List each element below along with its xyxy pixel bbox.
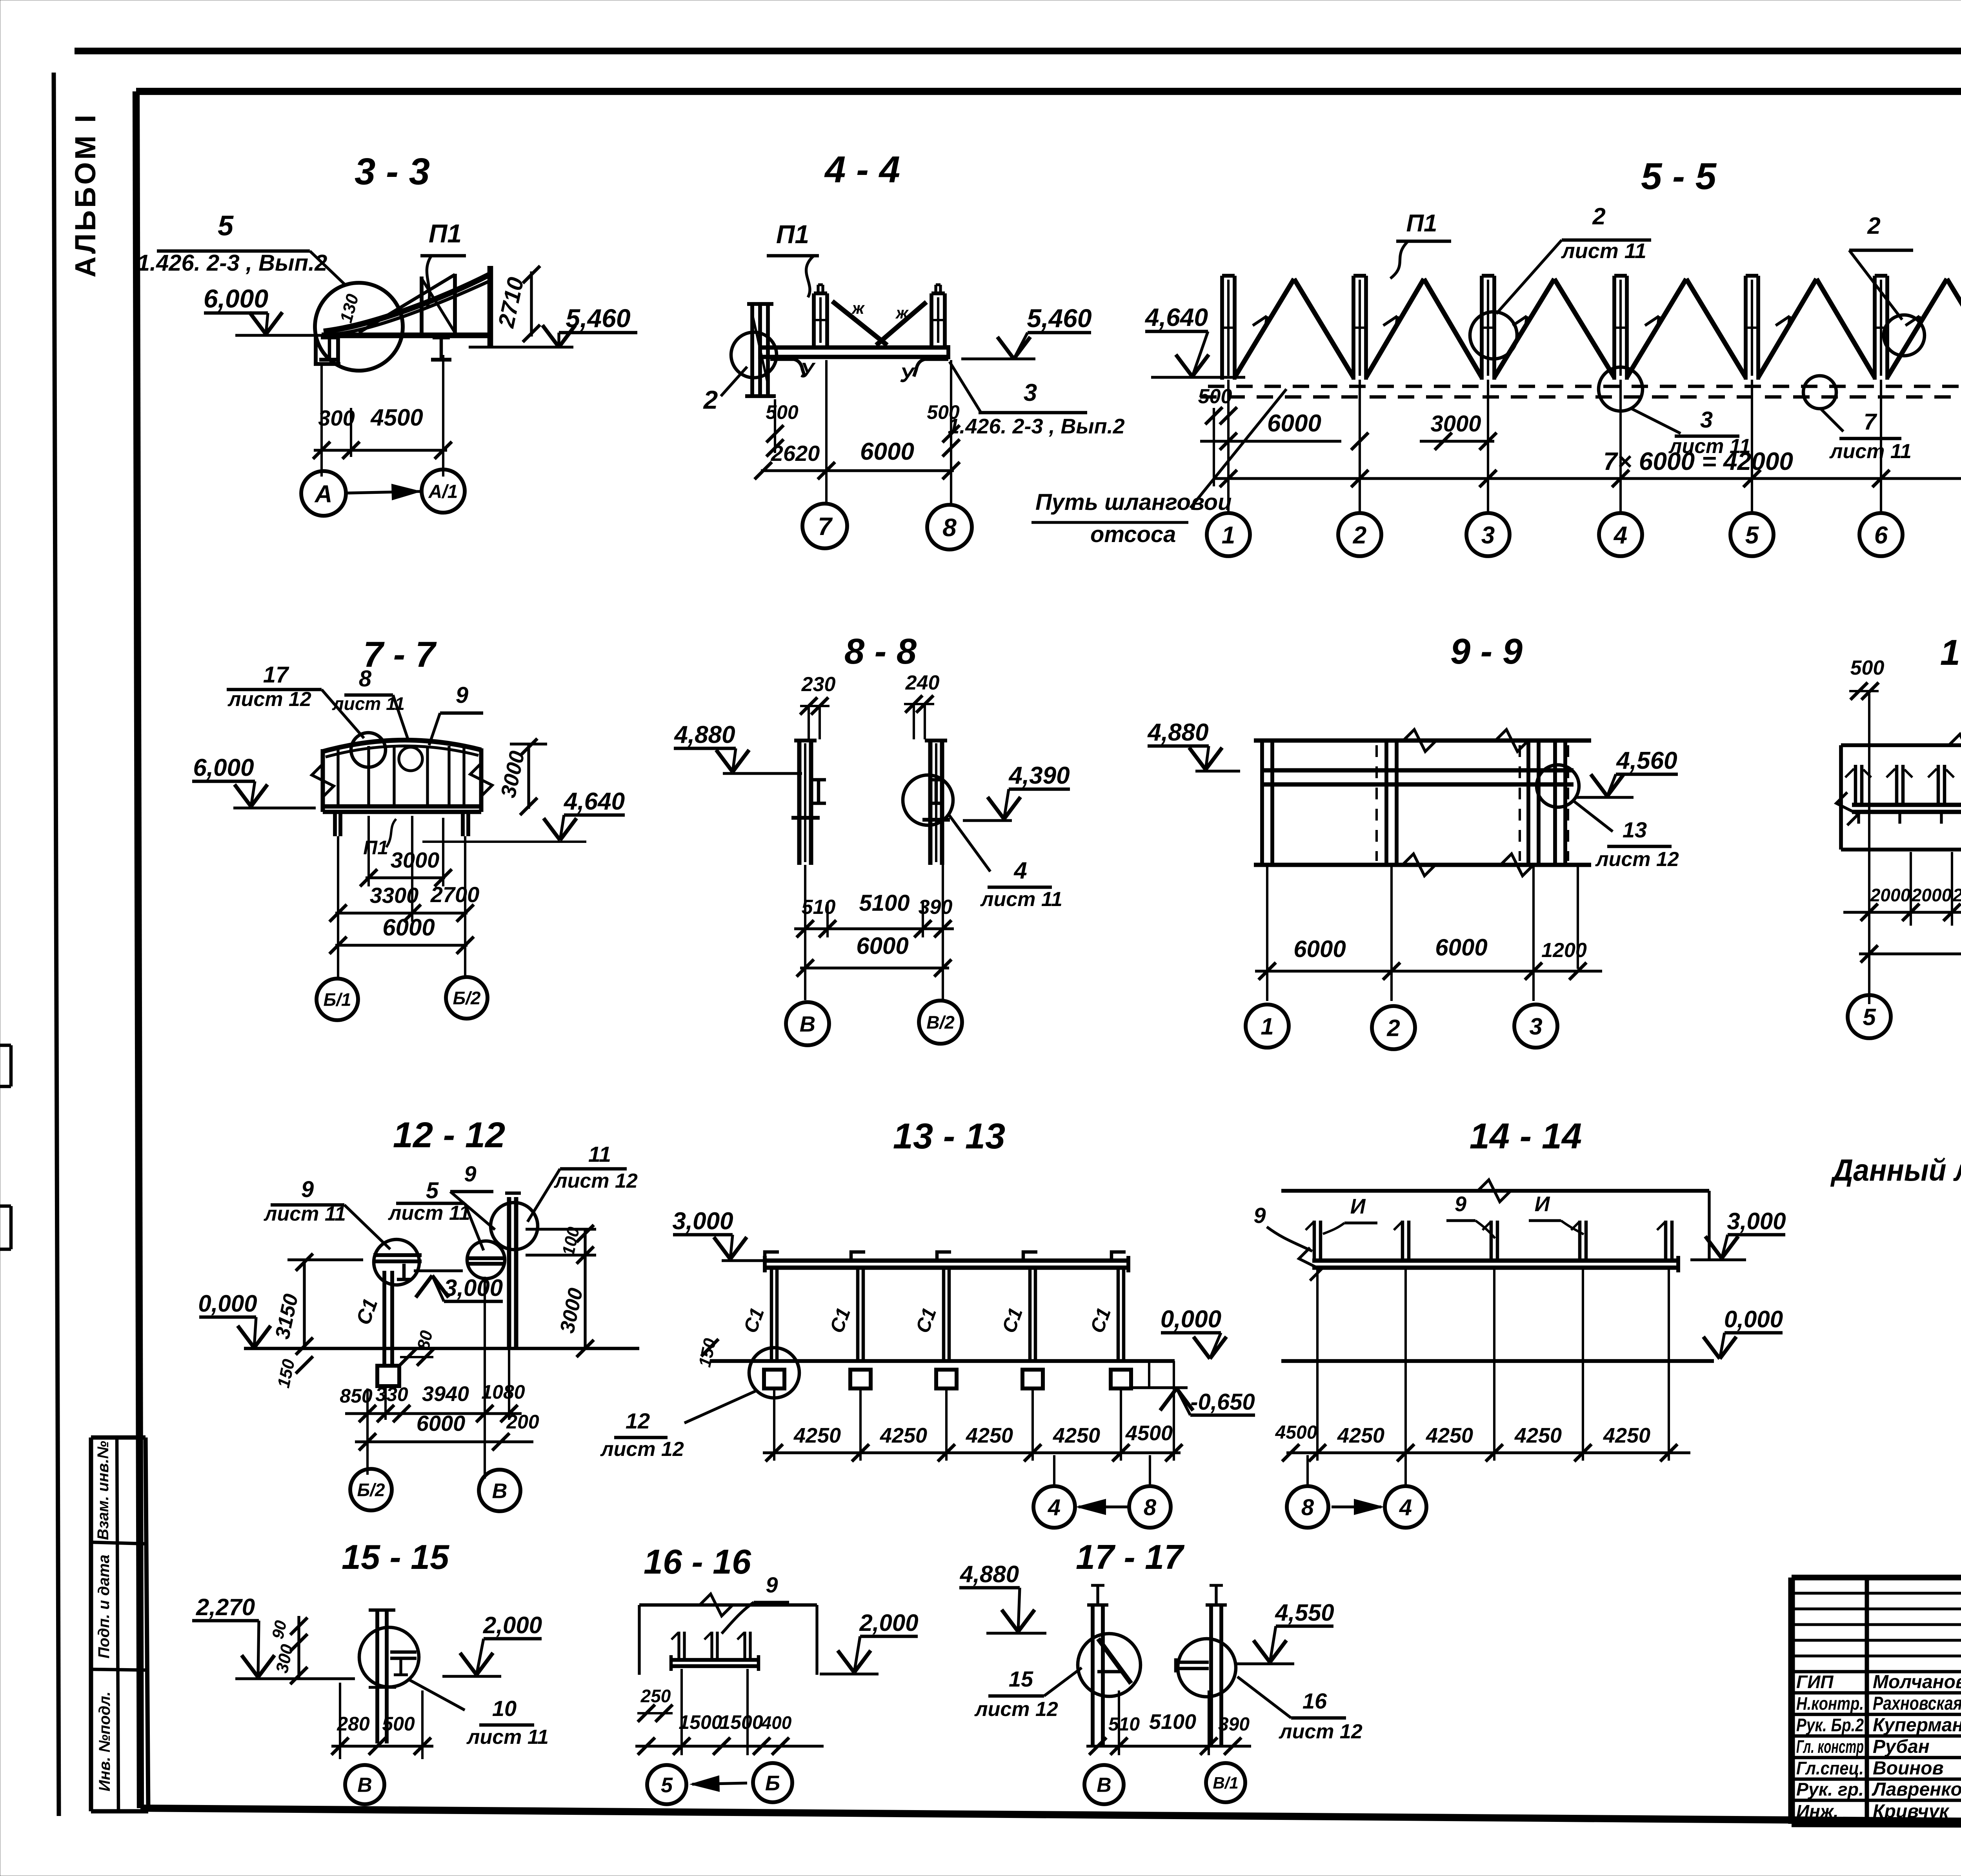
svg-text:3,000: 3,000 — [672, 1208, 733, 1235]
svg-text:Рук. Бр.2: Рук. Бр.2 — [1796, 1715, 1864, 1735]
svg-text:2,000: 2,000 — [859, 1610, 918, 1636]
svg-text:9: 9 — [301, 1177, 314, 1202]
svg-text:4,640: 4,640 — [563, 788, 625, 815]
svg-text:230: 230 — [801, 673, 836, 696]
svg-text:-0,650: -0,650 — [1190, 1389, 1255, 1415]
svg-text:500: 500 — [382, 1713, 415, 1735]
svg-text:Б/2: Б/2 — [453, 988, 481, 1008]
svg-text:2000: 2000 — [1952, 885, 1961, 905]
svg-text:4250: 4250 — [1514, 1424, 1562, 1447]
svg-text:2,270: 2,270 — [196, 1594, 255, 1620]
svg-text:2: 2 — [1867, 213, 1880, 239]
svg-text:5: 5 — [1745, 522, 1759, 549]
svg-text:4,880: 4,880 — [673, 721, 735, 748]
svg-text:Куперман: Куперман — [1873, 1715, 1961, 1736]
svg-text:7: 7 — [818, 512, 833, 540]
svg-text:П1: П1 — [1406, 210, 1437, 237]
svg-text:17: 17 — [263, 662, 289, 688]
svg-text:3000: 3000 — [391, 848, 440, 872]
svg-text:Инв. №подл.: Инв. №подл. — [96, 1692, 113, 1792]
svg-text:12: 12 — [626, 1408, 650, 1433]
svg-text:14 - 14: 14 - 14 — [1470, 1116, 1582, 1156]
svg-text:4250: 4250 — [1603, 1424, 1650, 1447]
svg-text:2: 2 — [1353, 522, 1366, 549]
svg-text:ж: ж — [851, 299, 865, 317]
svg-text:17 - 17: 17 - 17 — [1076, 1538, 1185, 1576]
svg-text:В: В — [492, 1479, 508, 1503]
svg-text:1: 1 — [1261, 1014, 1273, 1040]
svg-text:Б: Б — [765, 1771, 780, 1795]
svg-text:1500: 1500 — [719, 1711, 763, 1733]
svg-text:4250: 4250 — [1426, 1424, 1473, 1447]
svg-text:5: 5 — [661, 1773, 673, 1797]
svg-text:8 - 8: 8 - 8 — [844, 631, 917, 671]
svg-text:3000: 3000 — [1430, 411, 1481, 437]
svg-text:8: 8 — [1144, 1495, 1157, 1520]
svg-text:7 - 7: 7 - 7 — [363, 635, 437, 675]
svg-text:3940: 3940 — [422, 1382, 469, 1406]
svg-text:Воинов: Воинов — [1873, 1758, 1944, 1779]
svg-text:9: 9 — [1253, 1203, 1266, 1228]
svg-text:6,000: 6,000 — [193, 754, 254, 781]
svg-text:Б/2: Б/2 — [357, 1480, 385, 1500]
svg-text:5100: 5100 — [1149, 1710, 1196, 1734]
svg-text:4,880: 4,880 — [1147, 719, 1208, 746]
svg-text:9: 9 — [464, 1161, 476, 1186]
svg-text:4500: 4500 — [370, 404, 423, 431]
svg-text:А: А — [314, 480, 333, 508]
svg-text:1200: 1200 — [1541, 939, 1587, 962]
svg-text:Рубан: Рубан — [1873, 1736, 1930, 1757]
svg-text:3,000: 3,000 — [1727, 1208, 1786, 1234]
svg-text:В: В — [357, 1774, 372, 1797]
svg-text:12 - 12: 12 - 12 — [393, 1115, 505, 1155]
svg-text:И: И — [1535, 1192, 1550, 1216]
svg-text:3: 3 — [1024, 379, 1037, 406]
svg-text:2: 2 — [703, 385, 718, 414]
svg-text:1.426. 2-3 , Вып.2: 1.426. 2-3 , Вып.2 — [137, 250, 327, 276]
svg-text:3 - 3: 3 - 3 — [355, 151, 430, 193]
svg-text:В/2: В/2 — [926, 1012, 955, 1033]
svg-text:15: 15 — [1009, 1667, 1033, 1691]
svg-text:7: 7 — [1864, 409, 1877, 435]
svg-text:8: 8 — [942, 513, 957, 542]
svg-text:П1: П1 — [363, 837, 388, 859]
svg-text:13 - 13: 13 - 13 — [893, 1116, 1005, 1156]
svg-text:лист 12: лист 12 — [553, 1170, 638, 1192]
svg-text:Лавренко: Лавренко — [1872, 1779, 1961, 1800]
svg-text:2000: 2000 — [1870, 885, 1911, 905]
svg-text:отсоса: отсоса — [1090, 522, 1176, 547]
svg-text:4,390: 4,390 — [1008, 762, 1070, 789]
svg-text:Рахновская: Рахновская — [1873, 1693, 1961, 1714]
svg-text:6: 6 — [1874, 522, 1888, 549]
svg-text:5: 5 — [426, 1178, 439, 1203]
svg-text:5: 5 — [218, 210, 234, 242]
svg-text:Инж.: Инж. — [1796, 1801, 1839, 1821]
svg-text:6000: 6000 — [1435, 934, 1487, 961]
svg-text:9: 9 — [766, 1572, 778, 1597]
svg-text:3: 3 — [1700, 407, 1713, 433]
svg-text:Подп. и дата: Подп. и дата — [95, 1555, 113, 1659]
svg-text:Б/1: Б/1 — [324, 990, 351, 1010]
svg-text:1.426. 2-3 , Вып.2: 1.426. 2-3 , Вып.2 — [948, 415, 1124, 438]
svg-text:6000: 6000 — [1293, 936, 1346, 962]
svg-text:Кривчук: Кривчук — [1873, 1801, 1950, 1822]
svg-text:4 - 4: 4 - 4 — [824, 149, 900, 191]
svg-text:5: 5 — [1863, 1004, 1876, 1030]
svg-text:2620: 2620 — [771, 441, 820, 466]
svg-text:1: 1 — [1222, 522, 1235, 549]
svg-text:6,000: 6,000 — [204, 284, 268, 313]
svg-text:4: 4 — [1048, 1495, 1061, 1520]
svg-text:В: В — [800, 1012, 815, 1036]
svg-text:П1: П1 — [776, 220, 809, 249]
svg-text:8: 8 — [359, 666, 372, 691]
svg-text:АЛЬБОМ I: АЛЬБОМ I — [69, 113, 102, 278]
svg-text:390: 390 — [1218, 1714, 1250, 1735]
svg-text:10: 10 — [492, 1696, 517, 1721]
svg-text:850: 850 — [340, 1385, 373, 1407]
svg-text:4: 4 — [1399, 1495, 1412, 1520]
svg-text:10 - 10: 10 - 10 — [1940, 633, 1961, 673]
svg-text:лист 11: лист 11 — [387, 1202, 470, 1225]
svg-text:13: 13 — [1623, 817, 1647, 842]
svg-text:400: 400 — [761, 1712, 792, 1733]
svg-text:4500: 4500 — [1125, 1421, 1173, 1445]
svg-text:300: 300 — [318, 406, 355, 430]
svg-text:Н.контр.: Н.контр. — [1796, 1693, 1864, 1714]
svg-text:16 - 16: 16 - 16 — [644, 1542, 751, 1581]
svg-text:500: 500 — [1198, 385, 1232, 408]
svg-text:8: 8 — [1301, 1495, 1314, 1520]
svg-text:У: У — [800, 358, 816, 382]
svg-text:16: 16 — [1302, 1689, 1327, 1713]
svg-text:4250: 4250 — [966, 1424, 1013, 1447]
svg-text:15 - 15: 15 - 15 — [342, 1538, 449, 1576]
svg-text:0,000: 0,000 — [198, 1290, 257, 1317]
svg-text:лист 12: лист 12 — [227, 688, 311, 711]
svg-text:510: 510 — [802, 896, 836, 919]
svg-text:4: 4 — [1013, 857, 1027, 884]
svg-text:4250: 4250 — [793, 1424, 841, 1447]
svg-text:5,460: 5,460 — [1027, 304, 1091, 333]
svg-text:4250: 4250 — [880, 1424, 927, 1447]
svg-text:4,560: 4,560 — [1615, 747, 1677, 774]
svg-text:6000: 6000 — [860, 438, 914, 465]
svg-text:4500: 4500 — [1275, 1422, 1317, 1443]
svg-text:0,000: 0,000 — [1161, 1306, 1221, 1333]
svg-text:4,550: 4,550 — [1275, 1599, 1334, 1626]
svg-text:9: 9 — [1455, 1192, 1466, 1216]
svg-text:500: 500 — [927, 401, 960, 423]
svg-text:280: 280 — [337, 1713, 370, 1735]
svg-text:6000: 6000 — [417, 1411, 466, 1436]
svg-text:5100: 5100 — [859, 890, 910, 916]
svg-text:Взам. инв.№: Взам. инв.№ — [95, 1441, 112, 1540]
svg-text:2: 2 — [1592, 203, 1605, 229]
svg-text:330: 330 — [375, 1383, 408, 1405]
svg-text:5,460: 5,460 — [566, 304, 630, 333]
svg-text:А/1: А/1 — [428, 481, 458, 502]
svg-text:4250: 4250 — [1053, 1424, 1100, 1447]
svg-text:1500: 1500 — [679, 1711, 722, 1733]
svg-text:ГИП: ГИП — [1796, 1672, 1834, 1692]
svg-text:3,000: 3,000 — [444, 1275, 503, 1301]
svg-text:ж: ж — [895, 304, 909, 322]
svg-text:4,640: 4,640 — [1144, 303, 1208, 331]
svg-text:90: 90 — [268, 1619, 290, 1640]
svg-text:лист 11: лист 11 — [1829, 440, 1912, 463]
svg-text:Данный лист см. совместно: Данный лист см. совместно с листами 7, 1… — [1830, 1153, 1961, 1187]
svg-text:Гл. констр: Гл. констр — [1796, 1736, 1864, 1757]
svg-text:лист 12: лист 12 — [1595, 848, 1679, 871]
svg-text:200: 200 — [506, 1411, 539, 1433]
svg-text:лист 12: лист 12 — [600, 1438, 684, 1461]
svg-text:лист 11: лист 11 — [466, 1726, 549, 1749]
svg-text:2,000: 2,000 — [483, 1612, 542, 1638]
svg-text:3: 3 — [1529, 1014, 1542, 1040]
svg-text:Молчанов: Молчанов — [1873, 1672, 1961, 1692]
svg-text:лист 12: лист 12 — [974, 1698, 1058, 1721]
svg-text:6000: 6000 — [382, 914, 435, 941]
svg-text:1080: 1080 — [481, 1381, 525, 1403]
svg-text:9 - 9: 9 - 9 — [1450, 631, 1523, 671]
svg-text:В: В — [1097, 1774, 1111, 1797]
svg-text:510: 510 — [1108, 1714, 1140, 1735]
svg-text:П1: П1 — [429, 219, 462, 248]
svg-text:Гл.спец.: Гл.спец. — [1796, 1758, 1864, 1778]
svg-text:2700: 2700 — [430, 882, 480, 907]
svg-text:Рук. гр.: Рук. гр. — [1796, 1779, 1864, 1800]
svg-text:лист 11: лист 11 — [1561, 239, 1646, 263]
svg-text:500: 500 — [766, 401, 799, 423]
svg-text:В/1: В/1 — [1213, 1774, 1238, 1792]
svg-text:4: 4 — [1613, 522, 1627, 549]
svg-text:2: 2 — [1386, 1015, 1400, 1041]
svg-text:У: У — [900, 363, 915, 387]
svg-text:11: 11 — [588, 1142, 611, 1166]
svg-text:лист 11: лист 11 — [980, 888, 1062, 911]
svg-text:0,000: 0,000 — [1724, 1306, 1783, 1332]
svg-text:7× 6000 = 42000: 7× 6000 = 42000 — [1603, 447, 1793, 475]
svg-text:500: 500 — [1850, 657, 1885, 679]
svg-text:250: 250 — [640, 1686, 671, 1706]
svg-text:3: 3 — [1481, 522, 1495, 549]
svg-text:4,880: 4,880 — [960, 1561, 1019, 1587]
svg-text:И: И — [1350, 1195, 1366, 1218]
svg-text:лист 12: лист 12 — [1278, 1720, 1363, 1743]
svg-text:6000: 6000 — [1267, 410, 1321, 437]
svg-text:4250: 4250 — [1337, 1424, 1384, 1447]
svg-text:240: 240 — [905, 671, 940, 694]
svg-text:9: 9 — [456, 682, 468, 708]
svg-text:2000: 2000 — [1911, 885, 1952, 905]
svg-text:5 - 5: 5 - 5 — [1641, 155, 1717, 197]
svg-text:6000: 6000 — [856, 933, 908, 959]
